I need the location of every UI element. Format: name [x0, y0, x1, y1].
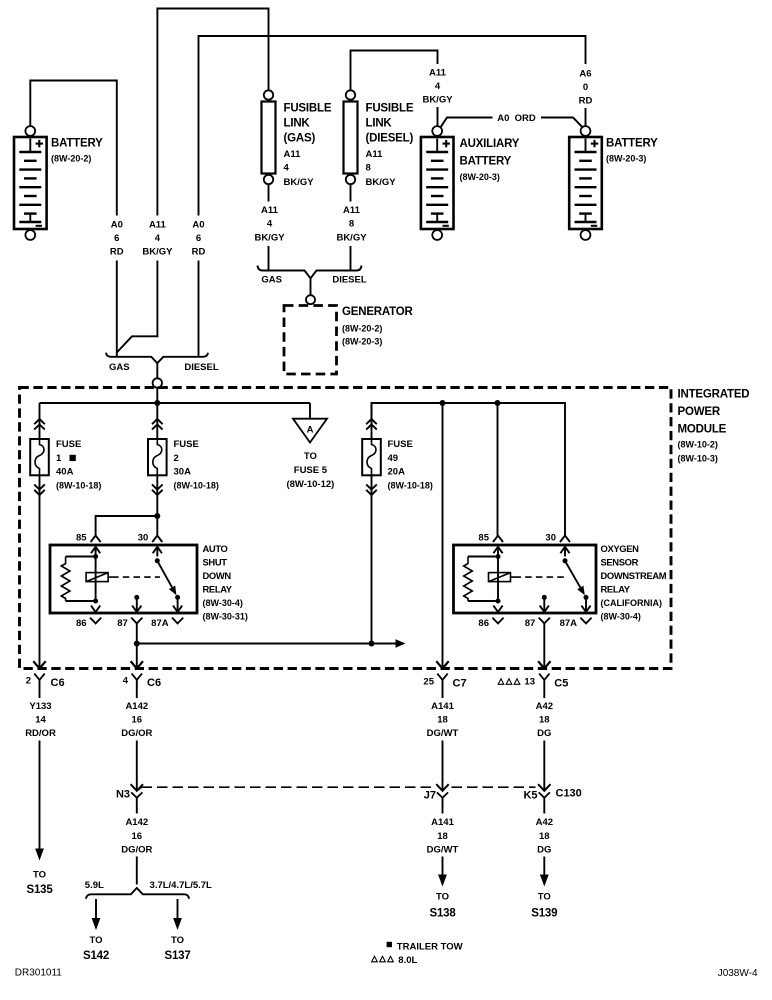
- fuse F49: [371, 403, 373, 439]
- svg-text:FUSE 5: FUSE 5: [294, 465, 328, 476]
- svg-text:TO: TO: [538, 892, 551, 903]
- brace engine split: [86, 888, 189, 899]
- svg-text:BK/GY: BK/GY: [336, 233, 367, 244]
- wire top bus 1 (A11): [157, 9, 268, 216]
- svg-text:DG: DG: [537, 845, 551, 856]
- wire F-DIESEL top to aux battery: [351, 51, 438, 91]
- wire F49 down to 87-output line: [371, 495, 373, 644]
- svg-text:FUSE: FUSE: [56, 439, 81, 450]
- wire merge brace to IPM node: [156, 363, 158, 378]
- wire node into IPM: [156, 388, 158, 403]
- relay K1 auto shut down resistor: [66, 556, 96, 558]
- svg-text:BATTERY: BATTERY: [606, 137, 658, 149]
- svg-text:4: 4: [123, 676, 129, 687]
- svg-text:AUXILIARY: AUXILIARY: [460, 138, 520, 150]
- svg-text:8.0L: 8.0L: [398, 955, 417, 966]
- svg-text:A6: A6: [579, 69, 591, 80]
- junction F2/pin85 branch: [154, 513, 160, 519]
- svg-text:RD: RD: [192, 247, 206, 258]
- svg-text:4: 4: [435, 81, 441, 92]
- wire to S135: [39, 741, 41, 850]
- svg-text:(8W-10-18): (8W-10-18): [56, 481, 101, 491]
- svg-text:TO: TO: [89, 935, 102, 946]
- wire A0-right lower segment: [198, 261, 200, 357]
- svg-text:85: 85: [478, 533, 489, 544]
- svg-text:C6: C6: [51, 677, 65, 689]
- svg-text:DIESEL: DIESEL: [184, 362, 219, 373]
- label 13 C5 with triangles: [498, 679, 504, 685]
- connector C5 pin13 crossing: [538, 661, 544, 668]
- svg-text:6: 6: [114, 233, 119, 244]
- brace GAS/DIESEL (generator): [258, 266, 362, 279]
- svg-text:A0: A0: [111, 220, 123, 231]
- svg-text:BK/GY: BK/GY: [254, 233, 285, 244]
- svg-text:S139: S139: [531, 907, 557, 919]
- svg-text:2: 2: [26, 676, 31, 687]
- svg-text:GAS: GAS: [109, 362, 130, 373]
- svg-text:(8W-30-31): (8W-30-31): [203, 612, 248, 622]
- fusible link F-GAS: [264, 90, 273, 99]
- svg-text:86: 86: [76, 618, 87, 629]
- wire brace to generator: [310, 278, 312, 295]
- wire bus drop to triangle A: [309, 403, 311, 419]
- svg-text:A11: A11: [429, 68, 447, 79]
- wire F2 node to ASD pin 30: [156, 516, 158, 536]
- svg-text:A0 ORD: A0 ORD: [497, 113, 536, 124]
- wire to N3: [136, 741, 138, 791]
- svg-text:FUSIBLE: FUSIBLE: [366, 103, 414, 115]
- fusible link F-DIESEL: [346, 90, 355, 99]
- svg-text:(8W-30-4): (8W-30-4): [203, 598, 243, 608]
- svg-text:AUTO: AUTO: [203, 543, 228, 554]
- svg-text:30: 30: [138, 533, 149, 544]
- svg-text:30A: 30A: [174, 467, 192, 478]
- relay K2 oxygen sensor downstream resistor: [468, 556, 498, 558]
- svg-text:4: 4: [284, 163, 290, 174]
- svg-text:A142: A142: [125, 701, 148, 712]
- svg-text:(8W-20-3): (8W-20-3): [342, 337, 382, 347]
- svg-text:(GAS): (GAS): [284, 133, 316, 145]
- svg-text:4: 4: [267, 219, 273, 230]
- svg-text:8: 8: [349, 219, 354, 230]
- svg-text:A141: A141: [431, 817, 454, 828]
- svg-text:DOWN: DOWN: [203, 570, 232, 581]
- arrow to S138: [438, 875, 447, 887]
- node IPM feed-through: [153, 378, 162, 387]
- off-page connector A (to fuse 5): [293, 419, 327, 443]
- wire below J7: [442, 798, 444, 814]
- IPM dashed boundary box: [20, 388, 672, 669]
- svg-text:(8W-10-12): (8W-10-12): [286, 479, 334, 490]
- wire left battery to node A0: [30, 81, 117, 216]
- wire to S142: [95, 899, 97, 919]
- svg-text:(8W-30-4): (8W-30-4): [601, 612, 641, 622]
- svg-text:DG/WT: DG/WT: [427, 728, 459, 739]
- relay K2 oxygen sensor downstream box: [454, 545, 597, 613]
- arrow 87-output continues: [396, 639, 406, 647]
- svg-text:87A: 87A: [560, 618, 578, 629]
- svg-text:BATTERY: BATTERY: [460, 156, 512, 168]
- relay K1 auto shut down coil wire: [93, 554, 98, 559]
- svg-text:BK/GY: BK/GY: [284, 177, 315, 188]
- battery B1 (left): [25, 126, 35, 136]
- svg-text:INTEGRATED: INTEGRATED: [678, 389, 750, 401]
- svg-text:A42: A42: [536, 817, 553, 828]
- wire aux feed lower: [437, 107, 439, 126]
- wire to K5: [543, 741, 545, 791]
- svg-text:A141: A141: [431, 701, 454, 712]
- svg-text:TO: TO: [304, 451, 317, 462]
- svg-text:DIESEL: DIESEL: [332, 275, 367, 286]
- arrow to S135: [35, 849, 44, 861]
- node generator terminal: [306, 295, 315, 304]
- svg-text:DOWNSTREAM: DOWNSTREAM: [601, 570, 667, 581]
- svg-text:FUSIBLE: FUSIBLE: [284, 103, 332, 115]
- svg-text:FUSE: FUSE: [174, 439, 199, 450]
- wire C6-4 stub: [136, 680, 138, 698]
- junction bus2/C7 drop: [440, 400, 446, 406]
- svg-text:87: 87: [525, 618, 536, 629]
- svg-text:GENERATOR: GENERATOR: [342, 306, 414, 318]
- battery B2 auxiliary: [432, 126, 442, 136]
- junction F49/87-output: [369, 641, 375, 647]
- C130 dashed link: [142, 786, 434, 788]
- wire C5-13 stub: [543, 680, 545, 698]
- svg-text:A11: A11: [261, 205, 279, 216]
- svg-text:1: 1: [56, 453, 62, 464]
- svg-text:BK/GY: BK/GY: [142, 247, 173, 258]
- arrow to S137: [173, 918, 182, 930]
- legend TRAILER TOW: [387, 942, 392, 947]
- svg-text:A0: A0: [192, 220, 204, 231]
- wire to S137: [177, 899, 179, 919]
- svg-text:86: 86: [478, 618, 489, 629]
- svg-text:(8W-10-18): (8W-10-18): [388, 481, 433, 491]
- svg-text:5.9L: 5.9L: [85, 880, 104, 891]
- svg-text:BK/GY: BK/GY: [422, 95, 453, 106]
- relay K2 oxygen sensor downstream pin 87: [542, 595, 547, 600]
- svg-text:Y133: Y133: [29, 701, 51, 712]
- svg-text:RD: RD: [110, 247, 124, 258]
- svg-text:BATTERY: BATTERY: [51, 137, 103, 149]
- wire O2-87 down to C5: [543, 623, 545, 668]
- wire A6 lower segment: [585, 108, 587, 126]
- svg-text:DG: DG: [537, 728, 551, 739]
- svg-text:C5: C5: [554, 678, 568, 690]
- svg-text:DG/WT: DG/WT: [427, 845, 459, 856]
- svg-text:LINK: LINK: [284, 118, 311, 130]
- relay K2 oxygen sensor downstream pin 85: [493, 536, 503, 543]
- svg-text:TO: TO: [171, 935, 184, 946]
- wire below K5: [543, 798, 545, 814]
- svg-text:DG/OR: DG/OR: [121, 728, 152, 739]
- svg-text:A11: A11: [366, 149, 384, 160]
- arrow to S142: [92, 918, 101, 930]
- wire F2 down to relay node: [156, 495, 158, 516]
- relay K1 auto shut down box: [50, 545, 197, 613]
- relay K2 oxygen sensor downstream coil: [489, 573, 511, 582]
- svg-text:6: 6: [196, 233, 201, 244]
- connector C6 pin2 crossing: [33, 661, 39, 668]
- svg-text:SHUT: SHUT: [203, 557, 228, 568]
- wire below N3: [136, 798, 138, 814]
- relay K1 auto shut down pin 30: [152, 536, 162, 543]
- svg-text:(8W-10-2): (8W-10-2): [678, 440, 718, 450]
- svg-text:S135: S135: [26, 884, 53, 896]
- svg-text:(8W-20-3): (8W-20-3): [606, 154, 646, 164]
- svg-text:20A: 20A: [388, 467, 406, 478]
- svg-text:GAS: GAS: [261, 275, 282, 286]
- wire to J7: [442, 741, 444, 791]
- svg-text:C130: C130: [556, 788, 582, 800]
- svg-text:POWER: POWER: [678, 406, 721, 418]
- connector N3 (C130): [131, 784, 143, 791]
- svg-text:DG/OR: DG/OR: [121, 845, 152, 856]
- svg-text:3.7L/4.7L/5.7L: 3.7L/4.7L/5.7L: [150, 880, 213, 891]
- svg-text:8: 8: [366, 163, 371, 174]
- svg-text:40A: 40A: [56, 467, 74, 478]
- svg-text:16: 16: [132, 715, 143, 726]
- svg-text:S138: S138: [429, 907, 456, 919]
- relay K1 auto shut down coil: [86, 573, 108, 582]
- wire C6-2 stub: [39, 680, 41, 698]
- wire branch to ASD pin 85: [96, 516, 158, 536]
- relay K2 oxygen sensor downstream switch arm: [563, 558, 568, 563]
- brace GAS/DIESEL (battery merge): [106, 353, 208, 363]
- connector C6 pin4 crossing: [131, 661, 137, 668]
- svg-text:A142: A142: [125, 817, 148, 828]
- svg-text:30: 30: [545, 533, 556, 544]
- svg-text:A11: A11: [343, 205, 361, 216]
- wire below F-GAS: [268, 184, 270, 201]
- svg-text:25: 25: [423, 677, 434, 688]
- wire F-DIESEL to generator brace: [350, 246, 352, 271]
- svg-text:18: 18: [539, 831, 550, 842]
- svg-text:RD/OR: RD/OR: [25, 728, 56, 739]
- svg-text:C7: C7: [453, 678, 467, 690]
- wire top bus 2 (A0 right): [199, 36, 586, 216]
- relay K2 oxygen sensor downstream pin 30: [560, 536, 570, 543]
- wire bus2 drop to C7: [442, 403, 444, 668]
- svg-text:S137: S137: [164, 950, 190, 962]
- svg-text:49: 49: [388, 453, 399, 464]
- svg-text:18: 18: [437, 831, 448, 842]
- svg-text:RELAY: RELAY: [203, 584, 233, 595]
- svg-text:18: 18: [539, 715, 550, 726]
- svg-text:(8W-10-3): (8W-10-3): [678, 454, 718, 464]
- svg-text:14: 14: [35, 715, 46, 726]
- wire 87-output arrow line: [137, 643, 396, 645]
- svg-text:85: 85: [76, 533, 87, 544]
- svg-text:13: 13: [524, 677, 535, 688]
- generator G1 dashed box: [284, 306, 337, 375]
- svg-text:(DIESEL): (DIESEL): [366, 133, 414, 145]
- relay K1 auto shut down pin 86: [91, 606, 96, 612]
- fuse F2: [156, 403, 158, 439]
- wire to S138: [442, 857, 444, 875]
- wire A0 ORD: [441, 118, 493, 128]
- battery B3 (right): [581, 126, 591, 136]
- svg-text:J038W-4: J038W-4: [718, 968, 758, 979]
- wire A11 lower segment with bend to GAS: [117, 261, 158, 353]
- svg-text:C6: C6: [147, 677, 161, 689]
- wire IPM bus (left): [40, 402, 311, 404]
- svg-text:18: 18: [437, 715, 448, 726]
- svg-text:FUSE: FUSE: [388, 439, 413, 450]
- svg-text:TO: TO: [33, 870, 46, 881]
- junction bus2/pin85 drop: [495, 400, 501, 406]
- svg-text:(8W-20-2): (8W-20-2): [51, 154, 91, 164]
- svg-text:OXYGEN: OXYGEN: [601, 543, 640, 554]
- wire C7-25 stub: [442, 680, 444, 698]
- connector J7 (C130): [436, 784, 448, 791]
- relay K2 oxygen sensor downstream pin 86: [493, 606, 498, 612]
- wire IPM bus (right): [372, 403, 566, 536]
- relay K2 oxygen sensor downstream coil wire: [496, 554, 501, 559]
- relay K1 auto shut down pin 87A: [177, 597, 179, 612]
- svg-text:BK/GY: BK/GY: [366, 177, 397, 188]
- arrow to S139: [540, 875, 549, 887]
- svg-text:SENSOR: SENSOR: [601, 557, 639, 568]
- wire to engine brace: [136, 857, 138, 885]
- junction 87-output: [134, 641, 140, 647]
- relay K1 auto shut down switch arm: [155, 558, 160, 563]
- wire F1 to C6-2: [39, 495, 41, 668]
- svg-text:LINK: LINK: [366, 118, 393, 130]
- svg-text:DR301011: DR301011: [15, 968, 63, 979]
- svg-text:A11: A11: [284, 149, 302, 160]
- relay K2 oxygen sensor downstream pin 87A: [585, 597, 587, 612]
- svg-text:2: 2: [174, 453, 179, 464]
- svg-text:A11: A11: [149, 220, 167, 231]
- svg-text:RELAY: RELAY: [601, 584, 631, 595]
- svg-text:MODULE: MODULE: [678, 424, 727, 436]
- svg-text:(8W-10-18): (8W-10-18): [174, 481, 219, 491]
- fuse F1: [39, 403, 41, 439]
- svg-text:87A: 87A: [151, 618, 169, 629]
- connector C7 pin25 crossing: [436, 661, 442, 668]
- svg-text:N3: N3: [116, 789, 130, 801]
- wire to S139: [543, 857, 545, 875]
- wire below F-DIESEL: [350, 184, 352, 201]
- wire bus2 drop to O2 relay pin85: [497, 403, 499, 536]
- svg-text:(8W-20-3): (8W-20-3): [460, 172, 500, 182]
- relay K1 auto shut down pin 87: [134, 595, 139, 600]
- wire F-GAS to generator brace: [268, 246, 270, 271]
- svg-text:J7: J7: [424, 790, 436, 802]
- svg-text:4: 4: [155, 233, 161, 244]
- connector K5 (C130): [538, 784, 550, 791]
- relay K1 auto shut down pin 85: [91, 536, 101, 543]
- svg-text:A42: A42: [536, 701, 553, 712]
- svg-text:0: 0: [583, 82, 588, 93]
- svg-text:87: 87: [117, 618, 128, 629]
- svg-text:K5: K5: [523, 790, 537, 802]
- legend 8.0L: [372, 956, 378, 962]
- svg-text:A: A: [307, 425, 314, 436]
- svg-text:RD: RD: [579, 96, 593, 107]
- svg-text:(8W-20-2): (8W-20-2): [342, 324, 382, 334]
- wire ASD-87 down: [136, 623, 138, 668]
- svg-text:TRAILER TOW: TRAILER TOW: [397, 941, 463, 952]
- junction bus/fuse2: [154, 400, 160, 406]
- svg-text:(CALIFORNIA): (CALIFORNIA): [601, 598, 663, 608]
- svg-text:TO: TO: [436, 892, 449, 903]
- svg-text:S142: S142: [83, 950, 109, 962]
- wire A0 left lower segment: [116, 261, 118, 357]
- svg-text:16: 16: [132, 831, 143, 842]
